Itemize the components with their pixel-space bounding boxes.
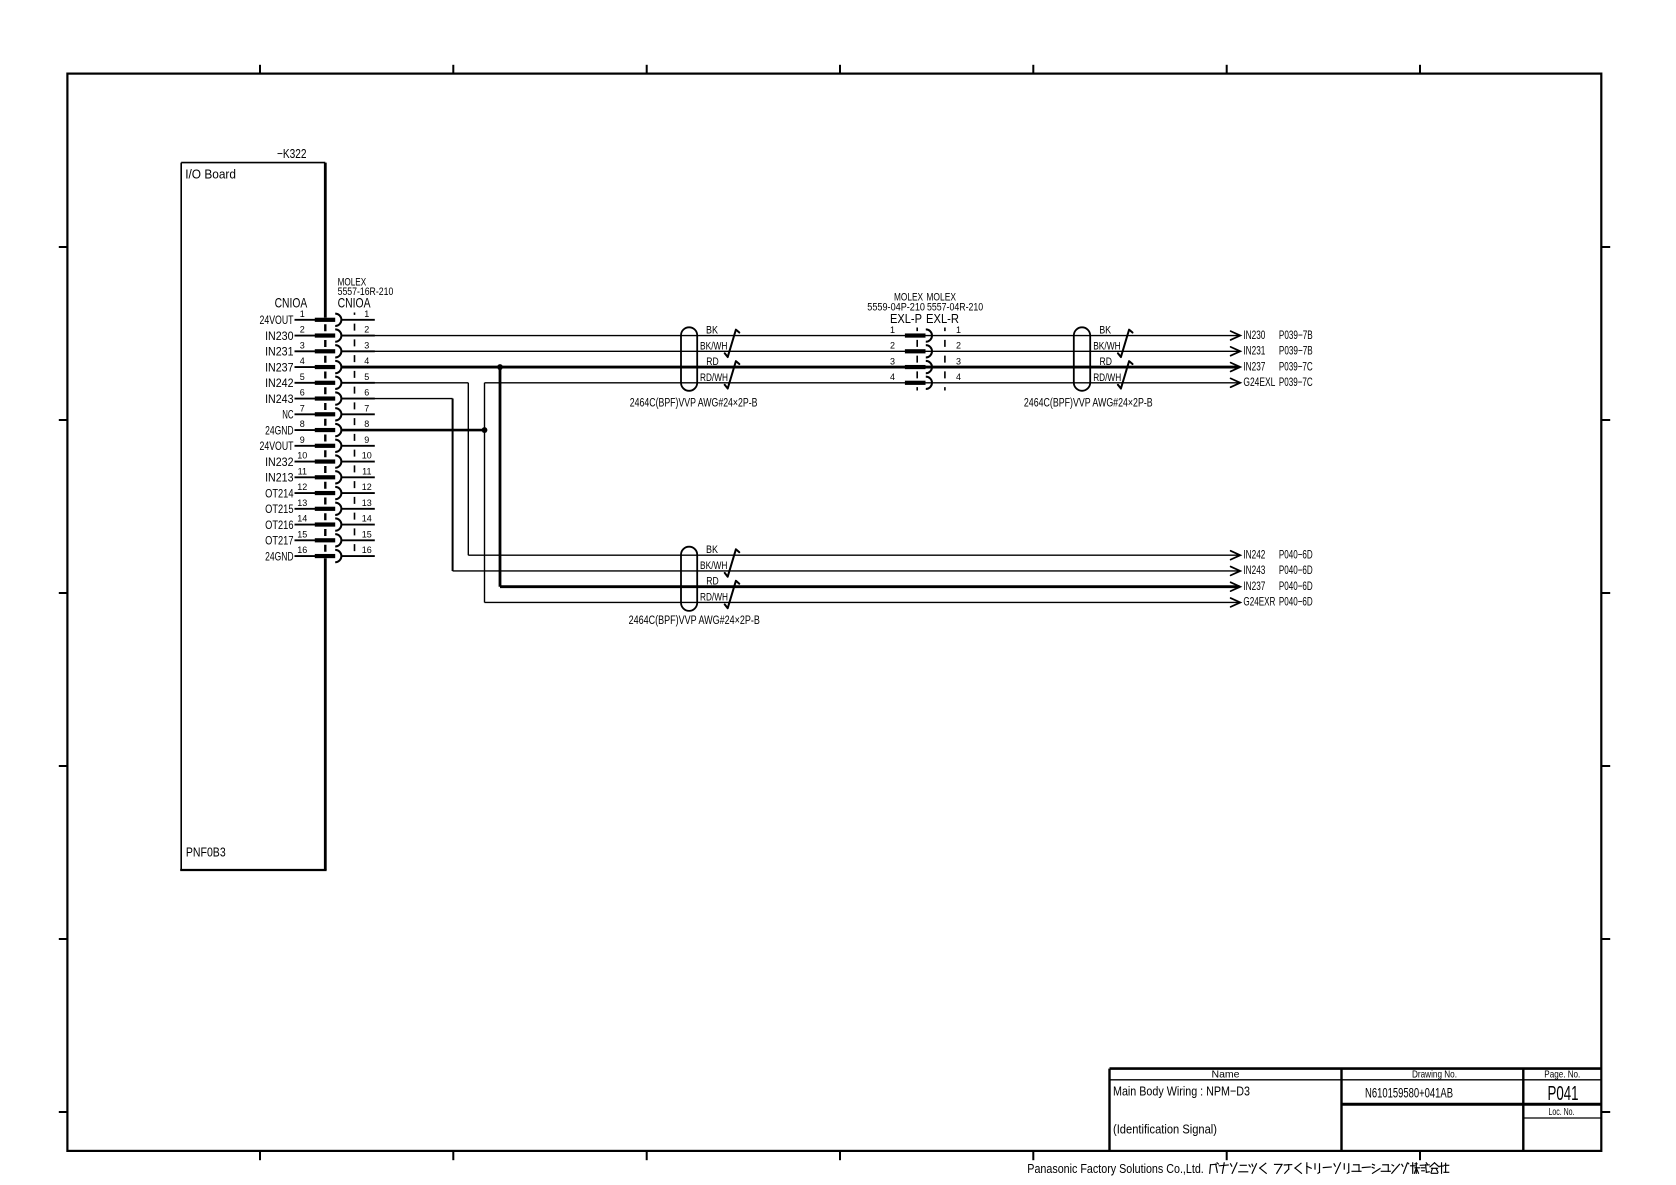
wire color labels upper-right (BK BK/WH RD RD/WH) <box>1093 325 1121 384</box>
connector CNIOA pin 4 (IN237) <box>265 356 375 374</box>
wire vertical IN237 thick x500 <box>499 367 502 587</box>
svg-text:2: 2 <box>890 341 895 351</box>
svg-text:Name: Name <box>1211 1069 1239 1081</box>
svg-text:1: 1 <box>956 325 961 335</box>
svg-text:RD/WH: RD/WH <box>700 591 728 603</box>
svg-text:P040−6D: P040−6D <box>1279 547 1313 561</box>
svg-text:IN242: IN242 <box>1243 547 1265 561</box>
svg-text:G24EXR: G24EXR <box>1243 595 1275 609</box>
svg-text:16: 16 <box>362 545 372 555</box>
svg-text:P040−6D: P040−6D <box>1279 579 1313 593</box>
wire 24GND thick (pin8 to junction) <box>341 429 484 432</box>
svg-text:6: 6 <box>364 388 369 398</box>
svg-text:IN231: IN231 <box>1243 344 1265 358</box>
junction dot 24GND at x484.5 <box>482 427 488 433</box>
svg-text:BK: BK <box>706 544 719 556</box>
title block <box>1110 1069 1602 1151</box>
svg-text:2: 2 <box>300 325 305 335</box>
connector CNIOA (cable side) MOLEX 5557-16R-210 labels <box>338 276 394 310</box>
connector CNIOA pin 5 (IN242) <box>265 372 375 390</box>
svg-text:IN231: IN231 <box>265 345 294 359</box>
svg-text:Drawing No.: Drawing No. <box>1412 1069 1457 1081</box>
node IN237 P039-7C with arrow <box>1231 359 1313 373</box>
svg-text:14: 14 <box>297 514 307 524</box>
svg-text:RD/WH: RD/WH <box>700 372 728 384</box>
cable shield oval (upper cable, left) <box>681 327 697 391</box>
svg-text:P039−7B: P039−7B <box>1279 344 1313 358</box>
svg-text:G24EXL: G24EXL <box>1243 375 1275 389</box>
svg-text:9: 9 <box>364 435 369 445</box>
svg-text:5: 5 <box>300 372 305 382</box>
wire IN242 lower (BK to arrow) <box>468 554 1239 556</box>
node IN243 P040-6D with arrow <box>1231 563 1313 577</box>
svg-text:3: 3 <box>364 340 369 350</box>
wire IN230 (pin2 to arrow, BK) <box>341 335 1239 337</box>
connector CNIOA pin 15 (OT217) <box>265 529 375 547</box>
connector CNIOA pin 2 (IN230) <box>265 325 375 343</box>
connector CNIOA pin 1 (24VOUT) <box>260 309 375 327</box>
svg-text:8: 8 <box>364 419 369 429</box>
svg-text:Loc. No.: Loc. No. <box>1549 1106 1575 1118</box>
wire IN243 lower (BK/WH to arrow) <box>453 570 1240 572</box>
connector CNIOA pin 7 (NC) <box>282 403 375 421</box>
svg-text:IN213: IN213 <box>265 471 294 485</box>
connector CNIOA pin 11 (IN213) <box>265 466 375 484</box>
twisted-pair mark upper-left pair1 <box>725 330 740 357</box>
svg-text:4: 4 <box>890 372 895 382</box>
wire G24EXL (vertical riser to arrow, RD/WH) <box>485 382 1240 384</box>
title block texts <box>1113 1069 1580 1137</box>
connector EXL pin 4 <box>890 372 961 389</box>
connector EXL-R body dashed line <box>944 328 946 391</box>
svg-text:24GND: 24GND <box>265 549 294 563</box>
svg-text:PNF0B3: PNF0B3 <box>186 845 226 860</box>
svg-text:IN230: IN230 <box>1243 328 1265 342</box>
connector CNIOA pin 14 (OT216) <box>265 514 375 532</box>
connector CNIOA pin 3 (IN231) <box>265 340 375 358</box>
connector EXL pin 2 <box>890 341 961 358</box>
svg-text:IN237: IN237 <box>265 360 294 374</box>
svg-text:14: 14 <box>362 514 372 524</box>
svg-text:12: 12 <box>297 482 307 492</box>
svg-text:10: 10 <box>362 451 372 461</box>
svg-text:RD: RD <box>706 356 719 368</box>
footer company name (Japanese, stylized) <box>1210 1163 1449 1174</box>
wire IN242 (pin5 horizontal segment) <box>341 382 468 384</box>
svg-text:3: 3 <box>300 340 305 350</box>
svg-text:IN232: IN232 <box>265 455 294 469</box>
svg-text:P040−6D: P040−6D <box>1279 563 1313 577</box>
svg-text:BK/WH: BK/WH <box>700 340 728 352</box>
node IN242 P040-6D with arrow <box>1231 547 1313 561</box>
svg-text:OT214: OT214 <box>265 486 294 500</box>
wire vertical IN243 x452.6 <box>452 399 454 571</box>
svg-text:RD/WH: RD/WH <box>1093 372 1121 384</box>
connector CNIOA pin 9 (24VOUT) <box>260 435 375 453</box>
wire IN237 thick (pin4 to arrow, RD) <box>341 366 1239 369</box>
svg-text:24VOUT: 24VOUT <box>260 439 294 453</box>
svg-text:OT217: OT217 <box>265 534 294 548</box>
svg-text:−K322: −K322 <box>277 146 307 161</box>
connector CNIOA pin 6 (IN243) <box>265 388 375 406</box>
svg-text:P041: P041 <box>1548 1083 1579 1105</box>
svg-text:P040−6D: P040−6D <box>1279 595 1313 609</box>
svg-text:12: 12 <box>362 482 372 492</box>
wire IN243 (pin6 horizontal segment) <box>341 398 452 400</box>
connector CNIOA pin 12 (OT214) <box>265 482 375 500</box>
twisted-pair mark upper-left pair2 <box>725 361 740 388</box>
svg-text:1: 1 <box>364 309 369 319</box>
svg-text:6: 6 <box>300 388 305 398</box>
svg-text:15: 15 <box>297 529 307 539</box>
svg-text:16: 16 <box>297 545 307 555</box>
svg-text:OT216: OT216 <box>265 518 294 532</box>
wire IN231 (pin3 to arrow, BK/WH) <box>341 350 1239 352</box>
node G24EXR P040-6D with arrow <box>1231 595 1313 609</box>
svg-text:Page. No.: Page. No. <box>1544 1069 1580 1081</box>
twisted-pair mark upper-right pair2 <box>1118 361 1133 388</box>
wire G24EXR lower (RD/WH to arrow) <box>485 601 1240 603</box>
svg-text:IN243: IN243 <box>1243 563 1265 577</box>
twisted-pair mark upper-right pair1 <box>1118 330 1133 357</box>
connector CNIOA body dashed line (plug side) <box>324 318 326 559</box>
svg-text:1: 1 <box>890 325 895 335</box>
svg-text:I/O Board: I/O Board <box>185 167 236 181</box>
svg-text:EXL-R: EXL-R <box>926 311 959 326</box>
svg-text:2464C(BPF)VVP AWG#24×2P-B: 2464C(BPF)VVP AWG#24×2P-B <box>1024 398 1153 410</box>
svg-text:9: 9 <box>300 435 305 445</box>
wire vertical IN242 x468.3 <box>467 383 469 555</box>
twisted-pair mark lower pair1 <box>725 549 740 576</box>
svg-text:1: 1 <box>300 309 305 319</box>
svg-text:BK: BK <box>706 325 719 337</box>
svg-text:10: 10 <box>297 451 307 461</box>
svg-text:4: 4 <box>300 356 305 366</box>
svg-text:8: 8 <box>300 419 305 429</box>
junction dot IN237 at x500 <box>497 364 503 370</box>
twisted-pair mark lower pair2 <box>725 581 740 608</box>
svg-text:NC: NC <box>282 408 294 422</box>
svg-text:2: 2 <box>956 341 961 351</box>
connector CNIOA body dashed line (receptacle side) <box>354 313 356 559</box>
svg-text:BK/WH: BK/WH <box>1093 340 1121 352</box>
svg-text:IN237: IN237 <box>1243 359 1265 373</box>
wire color labels lower (BK BK/WH RD RD/WH) <box>700 544 728 603</box>
connector CNIOA pin 10 (IN232) <box>265 451 375 469</box>
svg-text:IN230: IN230 <box>265 329 294 343</box>
node IN237 P040-6D with arrow <box>1231 579 1313 593</box>
svg-text:BK/WH: BK/WH <box>700 560 728 572</box>
wire color labels upper-left (BK BK/WH RD RD/WH) <box>700 325 728 384</box>
connector CNIOA pin 8 (24GND) <box>265 419 375 437</box>
svg-text:11: 11 <box>362 466 371 476</box>
svg-text:OT215: OT215 <box>265 502 294 516</box>
node IN231 P039-7B with arrow <box>1231 344 1313 358</box>
svg-text:24VOUT: 24VOUT <box>260 313 294 327</box>
connector EXL pin 3 <box>890 356 961 373</box>
svg-text:P039−7C: P039−7C <box>1279 359 1313 373</box>
node IN230 P039-7B with arrow <box>1231 328 1313 342</box>
svg-text:4: 4 <box>956 372 961 382</box>
svg-text:3: 3 <box>890 356 895 366</box>
svg-text:4: 4 <box>364 356 369 366</box>
svg-text:(Identification Signal): (Identification Signal) <box>1113 1122 1217 1137</box>
I/O Board -K322 outline <box>180 163 326 870</box>
svg-text:5: 5 <box>364 372 369 382</box>
connector EXL-P body dashed line <box>916 328 918 391</box>
svg-text:7: 7 <box>364 403 369 413</box>
svg-text:15: 15 <box>362 529 372 539</box>
svg-text:EXL-P: EXL-P <box>890 311 922 326</box>
svg-text:24GND: 24GND <box>265 423 294 437</box>
svg-text:P039−7B: P039−7B <box>1279 328 1313 342</box>
svg-text:3: 3 <box>956 356 961 366</box>
svg-text:P039−7C: P039−7C <box>1279 375 1313 389</box>
cable shield oval (lower cable) <box>681 547 697 611</box>
svg-text:N610159580+041AB: N610159580+041AB <box>1365 1085 1453 1101</box>
connector CNIOA pin 13 (OT215) <box>265 498 375 516</box>
svg-text:RD: RD <box>706 576 719 588</box>
svg-text:11: 11 <box>298 466 307 476</box>
svg-text:IN243: IN243 <box>265 392 294 406</box>
cable shield oval (upper cable, right) <box>1074 327 1090 391</box>
svg-text:Panasonic Factory Solutions Co: Panasonic Factory Solutions Co.,Ltd. <box>1027 1162 1204 1176</box>
connector CNIOA pin 16 (24GND) <box>265 545 375 563</box>
svg-text:2464C(BPF)VVP AWG#24×2P-B: 2464C(BPF)VVP AWG#24×2P-B <box>630 398 758 410</box>
svg-text:IN237: IN237 <box>1243 579 1265 593</box>
svg-text:IN242: IN242 <box>265 376 294 390</box>
svg-text:13: 13 <box>297 498 307 508</box>
svg-text:BK: BK <box>1099 325 1112 337</box>
svg-text:2464C(BPF)VVP AWG#24×2P-B: 2464C(BPF)VVP AWG#24×2P-B <box>629 615 761 627</box>
connector EXL pin 1 <box>890 325 961 342</box>
wire IN237 lower thick (RD to arrow) <box>500 585 1240 588</box>
svg-text:7: 7 <box>300 403 305 413</box>
svg-text:2: 2 <box>364 325 369 335</box>
wire vertical 24GND/G24EX x484.5 <box>484 383 486 603</box>
svg-text:RD: RD <box>1100 356 1113 368</box>
node G24EXL P039-7C with arrow <box>1231 375 1313 389</box>
svg-text:13: 13 <box>362 498 372 508</box>
connector EXL-P / EXL-R headers <box>867 292 983 326</box>
svg-text:Main Body Wiring : NPM−D3: Main Body Wiring : NPM−D3 <box>1113 1084 1250 1099</box>
